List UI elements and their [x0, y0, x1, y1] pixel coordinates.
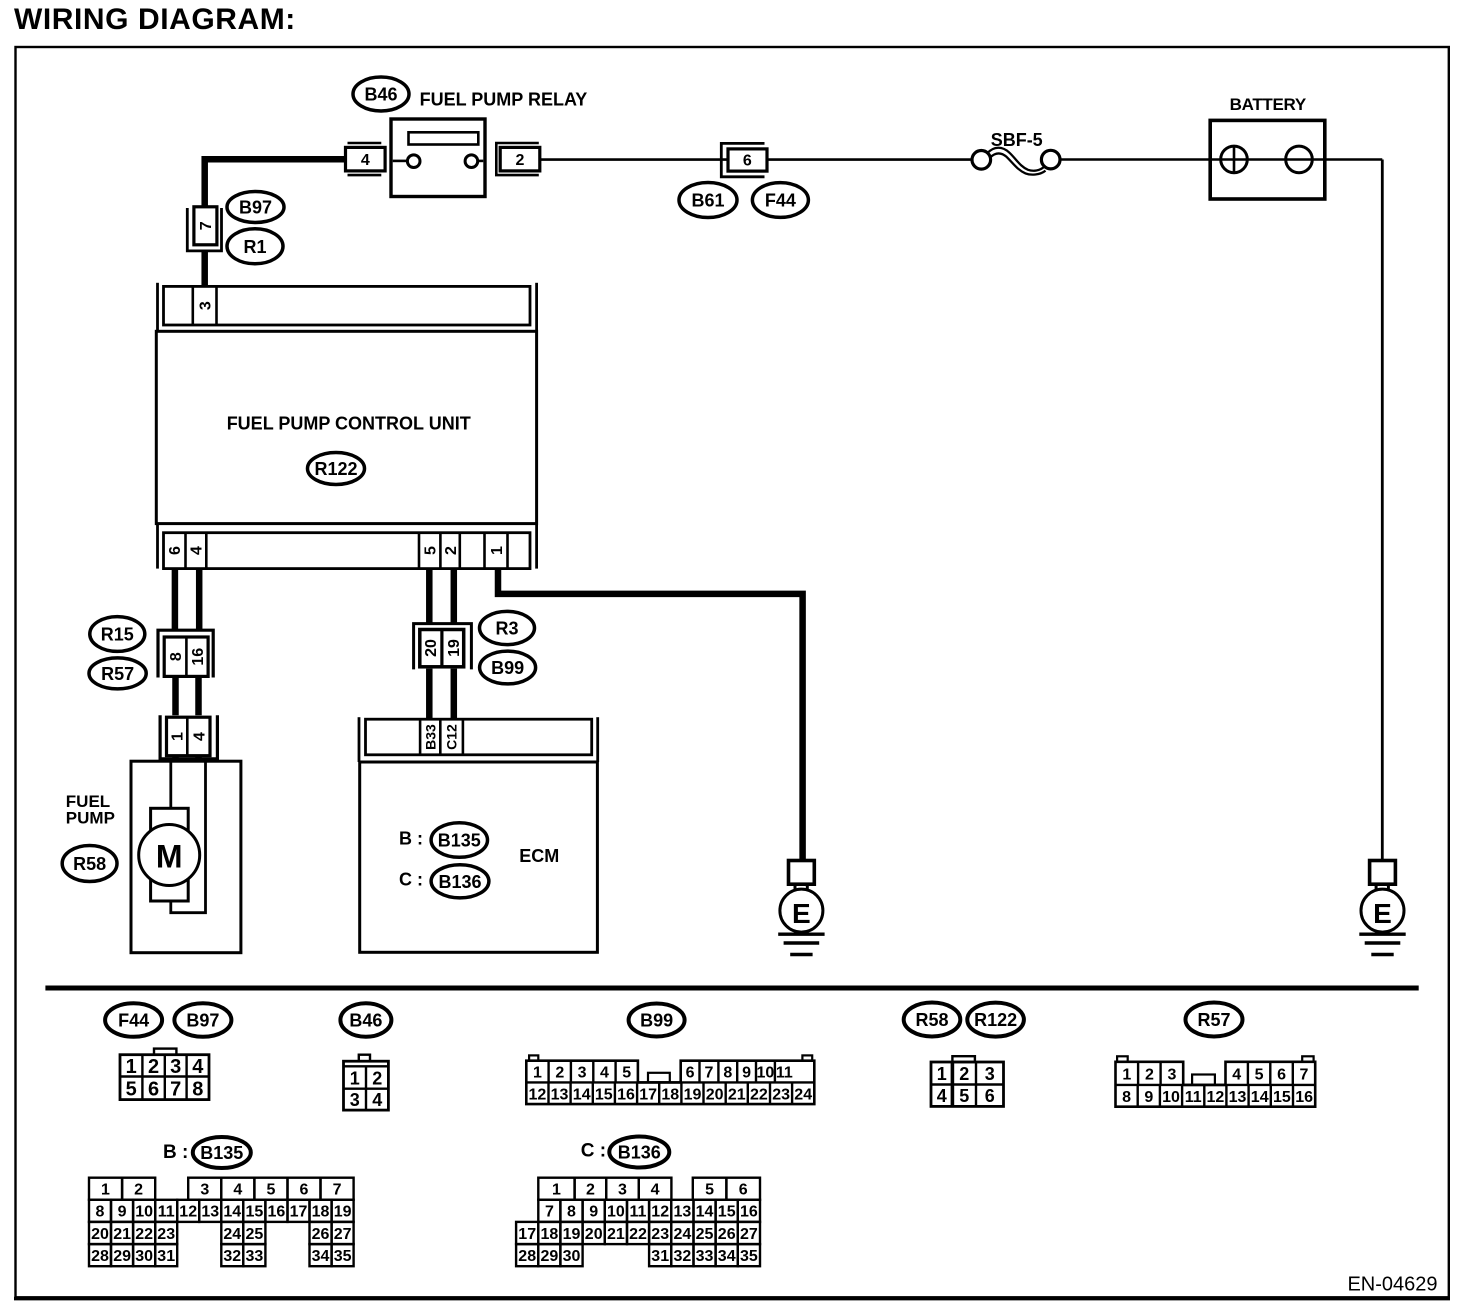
svg-text:2: 2 — [372, 1068, 382, 1088]
svg-text:R58: R58 — [915, 1010, 948, 1030]
svg-text:27: 27 — [334, 1226, 352, 1243]
svg-text:12: 12 — [529, 1086, 547, 1103]
svg-text:20: 20 — [706, 1086, 724, 1103]
svg-text:29: 29 — [113, 1248, 131, 1265]
svg-text:26: 26 — [312, 1226, 330, 1243]
svg-text:R1: R1 — [243, 237, 266, 257]
svg-text:8: 8 — [168, 652, 185, 661]
svg-text:18: 18 — [312, 1204, 330, 1221]
svg-text:23: 23 — [157, 1226, 175, 1243]
svg-text:24: 24 — [794, 1086, 812, 1103]
svg-text:5: 5 — [622, 1065, 631, 1082]
svg-text:4: 4 — [651, 1182, 660, 1199]
svg-text:7: 7 — [198, 221, 215, 230]
svg-text:11: 11 — [1185, 1089, 1202, 1106]
svg-text:1: 1 — [126, 1056, 137, 1078]
svg-text:10: 10 — [757, 1065, 775, 1082]
svg-text:16: 16 — [740, 1204, 758, 1221]
svg-text:33: 33 — [696, 1248, 714, 1265]
svg-text:24: 24 — [674, 1226, 692, 1243]
svg-text:R57: R57 — [1197, 1010, 1230, 1030]
svg-text:B136: B136 — [438, 872, 481, 892]
svg-text:B46: B46 — [349, 1011, 382, 1031]
svg-text:35: 35 — [740, 1248, 758, 1265]
svg-text:26: 26 — [718, 1226, 736, 1243]
svg-text:18: 18 — [541, 1226, 559, 1243]
svg-text:19: 19 — [334, 1204, 352, 1221]
svg-text:17: 17 — [290, 1204, 308, 1221]
svg-text:6: 6 — [1277, 1067, 1286, 1084]
svg-text:FUEL PUMP RELAY: FUEL PUMP RELAY — [420, 90, 588, 110]
svg-text:35: 35 — [334, 1248, 352, 1265]
svg-text:30: 30 — [563, 1248, 581, 1265]
svg-text:32: 32 — [223, 1248, 241, 1265]
svg-text:6: 6 — [743, 153, 752, 170]
svg-text:1: 1 — [170, 732, 187, 741]
svg-text:E: E — [1373, 898, 1392, 929]
svg-text:17: 17 — [518, 1226, 536, 1243]
svg-text:16: 16 — [190, 648, 207, 666]
svg-text:10: 10 — [135, 1204, 153, 1221]
svg-text:C :: C : — [399, 870, 423, 890]
svg-text:11: 11 — [158, 1204, 175, 1221]
svg-text:19: 19 — [684, 1086, 702, 1103]
svg-text:7: 7 — [170, 1079, 181, 1101]
svg-text:B97: B97 — [186, 1011, 219, 1031]
svg-text:4: 4 — [192, 1056, 204, 1078]
svg-text:12: 12 — [1207, 1089, 1225, 1106]
svg-text:10: 10 — [1162, 1089, 1180, 1106]
svg-text:7: 7 — [545, 1204, 554, 1221]
svg-text:6: 6 — [985, 1086, 995, 1106]
svg-text:25: 25 — [696, 1226, 714, 1243]
svg-text:R122: R122 — [974, 1010, 1017, 1030]
svg-text:16: 16 — [1295, 1089, 1313, 1106]
svg-text:2: 2 — [443, 546, 460, 555]
svg-text:7: 7 — [1300, 1067, 1309, 1084]
svg-text:2: 2 — [555, 1065, 564, 1082]
svg-text:1: 1 — [489, 546, 506, 555]
svg-text:13: 13 — [674, 1204, 692, 1221]
svg-text:31: 31 — [651, 1248, 669, 1265]
svg-text:3: 3 — [985, 1064, 995, 1084]
svg-text:13: 13 — [1229, 1089, 1247, 1106]
svg-text:FUEL PUMP CONTROL UNIT: FUEL PUMP CONTROL UNIT — [227, 414, 471, 434]
svg-text:8: 8 — [1122, 1089, 1131, 1106]
svg-text:28: 28 — [91, 1248, 109, 1265]
svg-text:6: 6 — [686, 1065, 695, 1082]
svg-text:5: 5 — [423, 546, 440, 555]
svg-text:BATTERY: BATTERY — [1230, 95, 1307, 114]
svg-text:3: 3 — [578, 1065, 587, 1082]
svg-text:8: 8 — [192, 1079, 203, 1101]
svg-text:7: 7 — [333, 1182, 342, 1199]
svg-text:B :: B : — [399, 829, 423, 849]
svg-text:14: 14 — [573, 1086, 591, 1103]
svg-text:C :: C : — [581, 1140, 606, 1161]
svg-text:1: 1 — [350, 1068, 360, 1088]
svg-text:8: 8 — [96, 1204, 105, 1221]
svg-text:R57: R57 — [101, 664, 134, 684]
svg-text:3: 3 — [200, 1182, 209, 1199]
svg-text:9: 9 — [589, 1204, 598, 1221]
svg-text:22: 22 — [629, 1226, 647, 1243]
svg-text:34: 34 — [312, 1248, 330, 1265]
svg-text:30: 30 — [135, 1248, 153, 1265]
svg-text:31: 31 — [157, 1248, 175, 1265]
svg-text:4: 4 — [1232, 1067, 1241, 1084]
svg-text:34: 34 — [718, 1248, 736, 1265]
svg-text:22: 22 — [135, 1226, 153, 1243]
svg-text:12: 12 — [651, 1204, 669, 1221]
svg-text:WIRING DIAGRAM:: WIRING DIAGRAM: — [14, 3, 296, 36]
svg-text:F44: F44 — [765, 191, 796, 211]
svg-text:16: 16 — [617, 1086, 635, 1103]
svg-text:2: 2 — [516, 152, 525, 169]
svg-text:6: 6 — [300, 1182, 309, 1199]
svg-text:R3: R3 — [495, 619, 518, 639]
svg-text:33: 33 — [246, 1248, 264, 1265]
svg-text:B99: B99 — [640, 1011, 673, 1031]
svg-text:18: 18 — [661, 1086, 679, 1103]
svg-text:21: 21 — [728, 1086, 746, 1103]
svg-text:13: 13 — [551, 1086, 569, 1103]
svg-text:5: 5 — [959, 1086, 969, 1106]
svg-text:C12: C12 — [444, 724, 460, 750]
svg-text:14: 14 — [223, 1204, 241, 1221]
svg-text:B33: B33 — [422, 724, 438, 750]
svg-text:3: 3 — [170, 1056, 181, 1078]
svg-text:8: 8 — [723, 1065, 732, 1082]
svg-text:15: 15 — [718, 1204, 736, 1221]
svg-text:2: 2 — [959, 1064, 969, 1084]
svg-text:M: M — [156, 839, 183, 875]
svg-text:B135: B135 — [200, 1143, 243, 1163]
svg-text:11: 11 — [630, 1204, 647, 1221]
svg-text:6: 6 — [148, 1079, 159, 1101]
svg-text:B61: B61 — [691, 191, 724, 211]
svg-text:12: 12 — [179, 1204, 197, 1221]
svg-text:1: 1 — [937, 1064, 947, 1084]
svg-text:3: 3 — [197, 301, 214, 310]
svg-text:5: 5 — [126, 1079, 137, 1101]
svg-text:B135: B135 — [438, 831, 481, 851]
svg-text:ECM: ECM — [519, 846, 559, 866]
svg-text:2: 2 — [1145, 1067, 1154, 1084]
svg-text:B99: B99 — [491, 658, 524, 678]
svg-text:1: 1 — [101, 1182, 110, 1199]
svg-text:1: 1 — [1122, 1067, 1131, 1084]
svg-text:4: 4 — [191, 732, 208, 741]
svg-text:9: 9 — [118, 1204, 127, 1221]
svg-text:11: 11 — [776, 1065, 793, 1082]
svg-text:B :: B : — [163, 1142, 188, 1163]
svg-text:7: 7 — [704, 1065, 713, 1082]
svg-text:15: 15 — [1273, 1089, 1291, 1106]
svg-text:PUMP: PUMP — [66, 809, 115, 828]
svg-text:2: 2 — [134, 1182, 143, 1199]
svg-text:23: 23 — [772, 1086, 790, 1103]
svg-text:3: 3 — [1167, 1067, 1176, 1084]
svg-text:23: 23 — [651, 1226, 669, 1243]
svg-text:E: E — [792, 898, 811, 929]
svg-text:29: 29 — [541, 1248, 559, 1265]
svg-text:20: 20 — [423, 639, 440, 657]
svg-text:2: 2 — [586, 1182, 595, 1199]
svg-text:4: 4 — [937, 1086, 947, 1106]
svg-text:5: 5 — [705, 1182, 714, 1199]
svg-text:R58: R58 — [73, 854, 106, 874]
svg-text:15: 15 — [246, 1204, 264, 1221]
svg-text:5: 5 — [1255, 1067, 1264, 1084]
svg-text:27: 27 — [740, 1226, 758, 1243]
svg-text:9: 9 — [742, 1065, 751, 1082]
svg-text:20: 20 — [91, 1226, 109, 1243]
svg-text:19: 19 — [563, 1226, 581, 1243]
svg-text:16: 16 — [268, 1204, 286, 1221]
svg-text:4: 4 — [189, 546, 206, 555]
svg-text:32: 32 — [674, 1248, 692, 1265]
svg-text:4: 4 — [233, 1182, 242, 1199]
svg-text:1: 1 — [533, 1065, 542, 1082]
svg-text:R122: R122 — [314, 459, 357, 479]
svg-text:15: 15 — [595, 1086, 613, 1103]
svg-text:6: 6 — [739, 1182, 748, 1199]
svg-text:R15: R15 — [101, 625, 134, 645]
svg-text:20: 20 — [585, 1226, 603, 1243]
svg-text:17: 17 — [639, 1086, 657, 1103]
svg-text:21: 21 — [607, 1226, 625, 1243]
svg-text:22: 22 — [750, 1086, 768, 1103]
svg-text:14: 14 — [696, 1204, 714, 1221]
svg-text:4: 4 — [372, 1090, 382, 1110]
svg-text:3: 3 — [350, 1090, 360, 1110]
svg-text:10: 10 — [607, 1204, 625, 1221]
svg-text:13: 13 — [201, 1204, 219, 1221]
svg-text:25: 25 — [246, 1226, 264, 1243]
svg-text:8: 8 — [567, 1204, 576, 1221]
svg-text:21: 21 — [113, 1226, 131, 1243]
svg-text:5: 5 — [266, 1182, 275, 1199]
svg-text:B136: B136 — [618, 1143, 661, 1163]
svg-text:1: 1 — [552, 1182, 561, 1199]
svg-text:EN-04629: EN-04629 — [1347, 1274, 1437, 1296]
svg-text:19: 19 — [446, 639, 463, 657]
svg-text:9: 9 — [1144, 1089, 1153, 1106]
svg-text:6: 6 — [167, 546, 184, 555]
svg-text:B97: B97 — [239, 198, 272, 218]
svg-text:14: 14 — [1251, 1089, 1269, 1106]
svg-text:4: 4 — [361, 152, 370, 169]
svg-text:B46: B46 — [364, 85, 397, 105]
svg-text:F44: F44 — [118, 1011, 149, 1031]
svg-text:28: 28 — [518, 1248, 536, 1265]
svg-text:3: 3 — [618, 1182, 627, 1199]
svg-text:4: 4 — [600, 1065, 609, 1082]
svg-text:24: 24 — [223, 1226, 241, 1243]
svg-text:2: 2 — [148, 1056, 159, 1078]
